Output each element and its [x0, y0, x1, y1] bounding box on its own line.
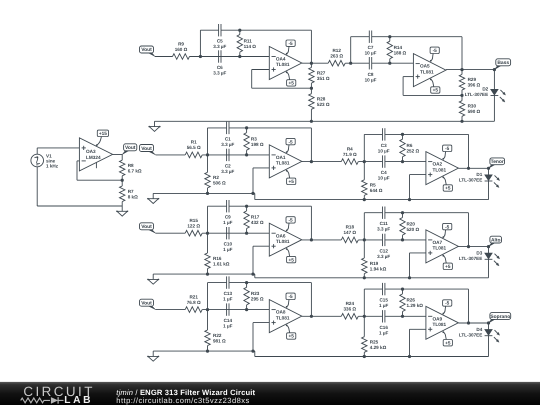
svg-text:+5: +5: [445, 340, 451, 345]
svg-text:D3: D3: [476, 251, 482, 256]
svg-text:1 µF: 1 µF: [223, 324, 232, 329]
svg-text:R18: R18: [346, 225, 355, 230]
svg-text:10 µF: 10 µF: [365, 77, 377, 82]
svg-text:D2: D2: [482, 87, 488, 92]
svg-text:R2: R2: [213, 175, 219, 180]
svg-text:981 Ω: 981 Ω: [213, 338, 226, 343]
svg-text:C12: C12: [379, 248, 388, 253]
svg-text:R23: R23: [251, 291, 260, 296]
svg-text:R3: R3: [251, 136, 257, 141]
svg-text:LAB: LAB: [64, 395, 93, 405]
svg-text:R19: R19: [370, 261, 379, 266]
svg-text:LTL-307EE: LTL-307EE: [465, 92, 488, 97]
svg-text:TL081: TL081: [276, 315, 290, 320]
svg-text:LM324: LM324: [86, 155, 101, 160]
svg-text:TL081: TL081: [276, 239, 290, 244]
svg-text:+5: +5: [433, 88, 439, 93]
svg-text:Soprano: Soprano: [490, 314, 510, 320]
svg-text:OA9: OA9: [433, 316, 443, 321]
svg-text:TL081: TL081: [433, 322, 447, 327]
svg-text:OA6: OA6: [276, 233, 286, 238]
svg-text:OA4: OA4: [276, 57, 286, 62]
svg-text:3.3 µF: 3.3 µF: [213, 71, 226, 76]
svg-text:-5: -5: [289, 218, 294, 223]
svg-text:-5: -5: [433, 48, 438, 53]
svg-text:71.9 Ω: 71.9 Ω: [343, 152, 357, 157]
svg-text:C13: C13: [224, 291, 233, 296]
svg-text:160 Ω: 160 Ω: [175, 47, 188, 52]
svg-text:+5: +5: [445, 264, 451, 269]
svg-text:C10: C10: [224, 242, 233, 247]
svg-text:OA2: OA2: [433, 162, 443, 167]
svg-text:TL081: TL081: [433, 167, 447, 172]
svg-text:10 µF: 10 µF: [378, 148, 390, 153]
svg-text:Bass: Bass: [497, 60, 509, 66]
svg-text:Vout: Vout: [141, 301, 152, 307]
svg-text:10 µF: 10 µF: [365, 51, 377, 56]
svg-text:-5: -5: [445, 146, 450, 151]
svg-text:TL081: TL081: [433, 246, 447, 251]
svg-text:1.94 kΩ: 1.94 kΩ: [370, 266, 387, 271]
svg-text:LTL-307EE: LTL-307EE: [459, 332, 482, 337]
svg-text:C1: C1: [225, 136, 231, 141]
svg-text:1.61 kΩ: 1.61 kΩ: [213, 261, 230, 266]
svg-text:Vout: Vout: [125, 145, 136, 151]
svg-text:C16: C16: [379, 325, 388, 330]
svg-text:3.3 µF: 3.3 µF: [221, 142, 234, 147]
svg-text:4.29 kΩ: 4.29 kΩ: [370, 345, 387, 350]
svg-text:R16: R16: [213, 256, 222, 261]
svg-text:336 Ω: 336 Ω: [343, 307, 356, 312]
svg-text:R28: R28: [317, 97, 326, 102]
svg-text:R27: R27: [317, 70, 326, 75]
svg-text:523 Ω: 523 Ω: [317, 102, 330, 107]
svg-text:R25: R25: [370, 340, 379, 345]
svg-text:644 Ω: 644 Ω: [370, 188, 383, 193]
svg-text:351 Ω: 351 Ω: [317, 76, 330, 81]
svg-text:OA1: OA1: [276, 155, 286, 160]
svg-text:10 µF: 10 µF: [378, 176, 390, 181]
svg-text:C9: C9: [225, 215, 231, 220]
svg-text:R21: R21: [189, 294, 198, 299]
svg-text:Vout: Vout: [141, 146, 152, 152]
svg-text:http://circuitlab.com/c3t5vzz2: http://circuitlab.com/c3t5vzz23d8xs: [116, 396, 250, 405]
svg-text:590 Ω: 590 Ω: [468, 109, 481, 114]
svg-text:506 Ω: 506 Ω: [213, 181, 226, 186]
svg-text:C14: C14: [224, 318, 233, 323]
svg-text:OA3: OA3: [86, 149, 96, 154]
svg-text:1 µF: 1 µF: [223, 247, 232, 252]
svg-text:R7: R7: [128, 189, 134, 194]
svg-text:R9: R9: [178, 41, 184, 46]
svg-text:R15: R15: [189, 218, 198, 223]
svg-text:D1: D1: [476, 172, 482, 177]
svg-text:Alto: Alto: [491, 237, 501, 243]
svg-text:LTL-307EE: LTL-307EE: [459, 256, 482, 261]
svg-text:R17: R17: [251, 215, 260, 220]
svg-text:R4: R4: [347, 146, 353, 151]
svg-text:OA8: OA8: [276, 310, 286, 315]
svg-text:TL081: TL081: [276, 62, 290, 67]
svg-text:3.3 µF: 3.3 µF: [377, 227, 390, 232]
svg-text:3.3 µF: 3.3 µF: [213, 44, 226, 49]
svg-text:-5: -5: [445, 301, 450, 306]
svg-text:147 Ω: 147 Ω: [343, 230, 356, 235]
svg-text:R12: R12: [332, 48, 341, 53]
svg-text:-5: -5: [445, 224, 450, 229]
svg-text:8 kΩ: 8 kΩ: [128, 194, 138, 199]
svg-text:1 µF: 1 µF: [379, 330, 388, 335]
svg-text:114 Ω: 114 Ω: [244, 44, 257, 49]
svg-text:520 Ω: 520 Ω: [407, 227, 420, 232]
svg-text:+5: +5: [289, 334, 295, 339]
svg-text:C3: C3: [381, 143, 387, 148]
svg-text:TL081: TL081: [276, 161, 290, 166]
svg-text:-5: -5: [289, 139, 294, 144]
svg-text:R5: R5: [370, 183, 376, 188]
svg-text:198 Ω: 198 Ω: [251, 142, 264, 147]
svg-text:1 kHz: 1 kHz: [46, 163, 59, 168]
svg-text:3.3 µF: 3.3 µF: [221, 169, 234, 174]
svg-text:+5: +5: [445, 186, 451, 191]
svg-text:1.29 kΩ: 1.29 kΩ: [407, 303, 424, 308]
svg-text:56.5 Ω: 56.5 Ω: [187, 145, 201, 150]
svg-text:R1: R1: [191, 140, 197, 145]
svg-text:C2: C2: [225, 163, 231, 168]
svg-text:76.8 Ω: 76.8 Ω: [187, 300, 201, 305]
svg-text:C8: C8: [368, 72, 374, 77]
svg-text:C7: C7: [368, 45, 374, 50]
svg-text:C15: C15: [379, 298, 388, 303]
svg-text:C4: C4: [381, 170, 387, 175]
svg-text:R11: R11: [244, 38, 253, 43]
svg-text:TL081: TL081: [420, 69, 434, 74]
svg-text:C5: C5: [217, 39, 223, 44]
svg-text:122 Ω: 122 Ω: [187, 224, 200, 229]
svg-text:R20: R20: [407, 221, 416, 226]
svg-text:C11: C11: [380, 221, 389, 226]
svg-text:1 µF: 1 µF: [223, 220, 232, 225]
svg-text:R24: R24: [346, 301, 355, 306]
svg-text:LTL-307EE: LTL-307EE: [459, 178, 482, 183]
svg-text:C6: C6: [217, 65, 223, 70]
svg-text:188 Ω: 188 Ω: [394, 51, 407, 56]
svg-text:432 Ω: 432 Ω: [251, 220, 264, 225]
svg-text:252 Ω: 252 Ω: [407, 149, 420, 154]
svg-text:R29: R29: [468, 77, 477, 82]
svg-text:Vout: Vout: [141, 224, 152, 230]
svg-text:-5: -5: [289, 294, 294, 299]
svg-text:-5: -5: [289, 41, 294, 46]
svg-text:+5: +5: [289, 179, 295, 184]
svg-text:6.7 kΩ: 6.7 kΩ: [128, 169, 142, 174]
svg-text:+15: +15: [99, 131, 107, 136]
svg-text:396 Ω: 396 Ω: [468, 83, 481, 88]
svg-text:OA5: OA5: [420, 64, 430, 69]
svg-text:Tenor: Tenor: [491, 159, 504, 165]
svg-text:295 Ω: 295 Ω: [251, 297, 264, 302]
svg-text:R22: R22: [213, 333, 222, 338]
svg-text:R8: R8: [128, 163, 134, 168]
svg-text:R14: R14: [394, 45, 403, 50]
svg-text:3.3 µF: 3.3 µF: [377, 254, 390, 259]
svg-text:D4: D4: [476, 327, 482, 332]
svg-text:+5: +5: [289, 81, 295, 86]
svg-text:1 µF: 1 µF: [223, 297, 232, 302]
svg-text:R6: R6: [407, 143, 413, 148]
svg-text:R26: R26: [407, 298, 416, 303]
svg-text:1 µF: 1 µF: [379, 303, 388, 308]
svg-text:263 Ω: 263 Ω: [330, 54, 343, 59]
svg-text:Vout: Vout: [141, 47, 152, 53]
svg-text:+5: +5: [289, 257, 295, 262]
svg-text:R30: R30: [468, 104, 477, 109]
svg-text:OA7: OA7: [433, 240, 443, 245]
